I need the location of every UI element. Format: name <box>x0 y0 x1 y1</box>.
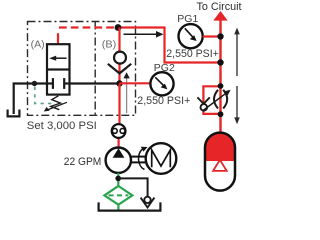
suction bypass check valve <box>141 197 155 208</box>
node: drain junction <box>32 81 37 86</box>
bypass wire to suction check valve <box>118 178 147 196</box>
svg-text:2,550 PSI+: 2,550 PSI+ <box>137 95 190 107</box>
rotation arrow <box>138 147 147 170</box>
flow control bypass loop <box>203 86 220 114</box>
svg-text:22 GPM: 22 GPM <box>64 156 102 168</box>
svg-text:To Circuit: To Circuit <box>197 1 242 13</box>
valve A blocked ports (bottom box) <box>47 78 70 89</box>
reservoir <box>99 202 161 210</box>
node: loop top <box>218 83 224 89</box>
valve A flow arrow (top box) <box>49 56 66 61</box>
enclosure border <box>28 22 136 116</box>
pump P1 <box>106 148 131 173</box>
filter F1 <box>104 186 132 205</box>
PG1 gauge <box>179 24 203 48</box>
valve A spring <box>51 96 61 110</box>
To Circuit arrowhead <box>213 11 227 21</box>
bypass check valve <box>197 97 209 110</box>
annotation arrow (top, pointing right) <box>124 31 164 38</box>
wire: valve outlet to node B <box>64 82 119 84</box>
check valve B line <box>118 28 120 84</box>
svg-text:(B): (B) <box>102 38 117 50</box>
pilot line (red dashed) valve A to node <box>57 33 59 44</box>
tank T1 <box>8 110 20 117</box>
node: PG1 tap <box>217 33 223 39</box>
node: pilot junction <box>115 24 122 31</box>
flow arrow beside B <box>123 72 129 113</box>
svg-text:2,550 PSI+: 2,550 PSI+ <box>166 48 219 60</box>
flow indicator <box>112 124 126 138</box>
PG2 gauge <box>150 72 173 95</box>
svg-text:(A): (A) <box>31 38 45 50</box>
node: below check valve B <box>116 80 122 86</box>
red drop to pump <box>118 84 120 125</box>
throttle adjustment arrow <box>203 90 231 111</box>
accumulator <box>205 133 235 191</box>
motor M1 <box>146 143 177 174</box>
check valve B <box>108 52 131 74</box>
svg-text:PG1: PG1 <box>177 13 198 25</box>
discharge arrow (down) <box>234 86 240 124</box>
enclosure divider <box>94 22 96 116</box>
node: suction junction <box>115 176 121 182</box>
relief valve A body <box>47 44 70 94</box>
svg-text:Set 3,000 PSI: Set 3,000 PSI <box>27 120 97 132</box>
pilot drain line (green dotted) <box>35 88 51 104</box>
valve A adjustment arrow <box>44 102 67 111</box>
wire: drain line to tank <box>14 84 53 115</box>
pump shaft <box>131 156 146 158</box>
throttle (flow control) arcs <box>214 90 218 109</box>
red line node to PG2 <box>120 82 151 84</box>
node: corner line tap <box>217 59 223 65</box>
red line PG1 to riser <box>203 35 221 37</box>
suction line (green) pump to filter <box>117 173 119 187</box>
filter outlet to reservoir (green) <box>117 205 119 211</box>
main red riser <box>219 19 221 134</box>
svg-text:PG2: PG2 <box>154 62 175 74</box>
node: loop bottom <box>218 111 224 117</box>
charge arrow (up) <box>234 28 240 76</box>
red line: node to corner to main riser <box>119 28 221 63</box>
